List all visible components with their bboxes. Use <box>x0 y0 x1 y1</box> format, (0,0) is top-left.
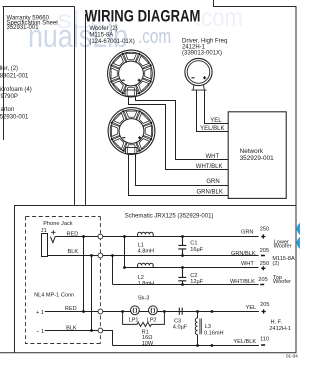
wire driver plus to YEL <box>205 90 229 123</box>
svg-text:+ 1: + 1 <box>36 310 44 316</box>
manualslib logo fragment right edge <box>297 223 300 249</box>
left panel text <box>0 15 58 120</box>
feedthrough terminal on -1 row <box>98 328 103 333</box>
svg-text:C3: C3 <box>174 319 181 325</box>
svg-text:352929-001: 352929-001 <box>240 155 275 162</box>
inductor L3 <box>195 312 223 346</box>
svg-text:352931-001: 352931-001 <box>7 25 40 31</box>
svg-text:2412H-1: 2412H-1 <box>182 45 206 51</box>
svg-text:BLK: BLK <box>68 249 79 255</box>
svg-text:Woofer: Woofer <box>274 244 292 250</box>
row1 wire RED to GRN+ <box>55 236 258 238</box>
junction node C1 bottom <box>181 254 184 257</box>
svg-text:Woofer: Woofer <box>273 279 291 285</box>
svg-text:GRN: GRN <box>241 230 253 236</box>
svg-text:WIRING DIAGRAM: WIRING DIAGRAM <box>85 7 201 25</box>
svg-text:Network: Network <box>240 148 264 155</box>
svg-text:arton: arton <box>1 107 15 113</box>
svg-text:250: 250 <box>260 261 269 267</box>
junction node blk bus top <box>90 254 93 257</box>
svg-text:9790P: 9790P <box>1 94 18 100</box>
junction node yelblk row <box>211 344 214 347</box>
svg-text:10W: 10W <box>142 341 154 347</box>
junction node C2 top <box>181 266 184 269</box>
svg-text:110: 110 <box>260 336 269 342</box>
svg-text:M115-8A: M115-8A <box>89 32 113 38</box>
terminal polarity marks <box>260 234 266 345</box>
svg-text:WHT/BLK: WHT/BLK <box>230 279 255 285</box>
wire driver minus to YEL/BLK <box>197 90 229 131</box>
junction node L3 bottom <box>196 344 199 347</box>
svg-text:WHT: WHT <box>206 154 220 160</box>
svg-text:L2: L2 <box>138 275 144 281</box>
svg-text:Sk-3: Sk-3 <box>138 295 150 301</box>
bus RED vertical <box>83 237 85 312</box>
feedthrough terminal on RED row1 <box>98 234 103 239</box>
left panel sheet <box>3 7 75 206</box>
junction node row4 feed top <box>111 254 114 257</box>
svg-text:Schematic JRX125 (352929-001): Schematic JRX125 (352929-001) <box>125 214 214 220</box>
row3 wire L2 to WHT+ <box>125 267 259 269</box>
schematic output labels <box>230 230 256 345</box>
upper wire labels <box>196 118 225 195</box>
svg-text:Woofer (2): Woofer (2) <box>89 26 117 32</box>
inductor L2 <box>138 263 154 287</box>
svg-text:205: 205 <box>258 277 267 283</box>
terminal values <box>258 227 269 343</box>
junction node L2 feed bottom <box>123 266 126 269</box>
lamp LP1 <box>131 306 140 315</box>
svg-text:89021-001: 89021-001 <box>0 74 29 80</box>
svg-text:YEL/BLK: YEL/BLK <box>233 339 256 345</box>
woofer caption <box>89 26 134 45</box>
main page left border <box>85 14 87 206</box>
svg-text:GRN/BLK: GRN/BLK <box>197 189 223 195</box>
wire W2 plus to GRN <box>136 154 229 186</box>
feedthrough terminal on +1 row <box>98 309 103 314</box>
driver HF symbol <box>185 58 212 90</box>
svg-text:52930-001: 52930-001 <box>0 115 29 121</box>
svg-text:4.0µF: 4.0µF <box>173 325 188 331</box>
capacitor C3 <box>164 308 197 331</box>
row2 wire BLK to GRN/BLK <box>48 255 259 257</box>
svg-text:WHT/BLK: WHT/BLK <box>196 164 223 170</box>
junction node C1 top <box>181 235 184 238</box>
capacitor C1 <box>178 237 203 256</box>
svg-text:(124-67001-01X): (124-67001-01X) <box>89 39 134 45</box>
svg-text:L3: L3 <box>205 324 211 330</box>
woofer W2 symbol <box>108 108 155 155</box>
row4 wire to WHT/BLK <box>113 284 259 286</box>
watermark manualslib.com <box>28 2 243 54</box>
input dashed box <box>26 217 101 344</box>
junction node L3 top <box>196 310 199 313</box>
svg-text:.com: .com <box>138 26 171 48</box>
svg-text:205: 205 <box>260 248 269 254</box>
feedthrough terminal on BLK row2 <box>98 253 103 258</box>
wire W1 minus to WHT/BLK <box>129 96 229 169</box>
svg-text:16µF: 16µF <box>190 247 203 253</box>
woofer W1 symbol <box>108 50 155 97</box>
lamp LP2 <box>149 306 158 315</box>
svg-text:C1: C1 <box>190 241 197 247</box>
svg-text:icrofoam (4): icrofoam (4) <box>0 87 32 93</box>
junction node yel row <box>211 310 214 313</box>
svg-text:NL4 MP-1 Conn: NL4 MP-1 Conn <box>34 293 74 299</box>
junction node R1 branch right <box>163 310 166 313</box>
row5 wire +1 to YEL+ <box>45 311 259 313</box>
svg-text:C2: C2 <box>190 273 197 279</box>
svg-text:GRN: GRN <box>206 179 219 185</box>
feed row3 vertical <box>124 237 126 268</box>
svg-text:GRN/BLK: GRN/BLK <box>231 251 256 257</box>
inductor L1 <box>138 232 154 254</box>
svg-text:ller, (2): ller, (2) <box>0 66 18 72</box>
svg-text:WHT: WHT <box>241 261 254 267</box>
svg-text:Phone Jack: Phone Jack <box>43 221 72 227</box>
svg-text:250: 250 <box>260 227 269 233</box>
svg-text:(2): (2) <box>272 261 279 267</box>
svg-text:− 1: − 1 <box>36 329 44 335</box>
schematic outer box <box>15 206 297 353</box>
svg-text:(339013-001X): (339013-001X) <box>182 51 222 57</box>
svg-text:1.8mH: 1.8mH <box>138 281 154 287</box>
junction node A red bus top <box>82 235 85 238</box>
page bottom border <box>0 352 297 354</box>
junction node blk bus bottom <box>90 329 93 332</box>
bottom wire to YEL/BLK <box>113 345 259 347</box>
svg-text:4.8mH: 4.8mH <box>138 248 154 254</box>
row6 wire -1 <box>45 331 113 346</box>
svg-text:0.16mH: 0.16mH <box>204 331 224 337</box>
wire W2 minus to GRN/BLK <box>129 154 229 196</box>
svg-text:Driver, High Freq: Driver, High Freq <box>182 39 227 45</box>
page right border <box>295 7 297 353</box>
bus BLK vertical <box>91 256 93 331</box>
svg-text:YEL: YEL <box>246 305 257 311</box>
svg-text:H. F.: H. F. <box>271 319 283 325</box>
junction node red bus bottom <box>82 310 85 313</box>
driver caption <box>182 39 227 57</box>
junction node B L2 feed top <box>123 235 126 238</box>
speaker designation labels <box>269 239 295 332</box>
capacitor C2 <box>178 268 203 286</box>
svg-text:YEL/BLK: YEL/BLK <box>200 126 224 132</box>
svg-text:12µF: 12µF <box>190 279 203 285</box>
wire W1 plus to WHT <box>136 96 229 159</box>
svg-text:205: 205 <box>260 302 269 308</box>
junction node R1 branch left <box>121 310 124 313</box>
sheet corner top right <box>214 0 297 7</box>
svg-text:01-04: 01-04 <box>286 353 298 358</box>
svg-text:2412H-1: 2412H-1 <box>269 326 290 332</box>
network box <box>228 112 286 199</box>
resistor R1 parallel branch <box>123 312 165 347</box>
junction node C2 bottom <box>181 283 184 286</box>
phone jack J1 <box>42 230 56 256</box>
wire labels RED/BLK <box>65 231 79 331</box>
svg-text:YEL: YEL <box>210 118 222 124</box>
feed row4 vertical <box>112 256 114 285</box>
svg-text:LP1: LP1 <box>129 317 139 323</box>
